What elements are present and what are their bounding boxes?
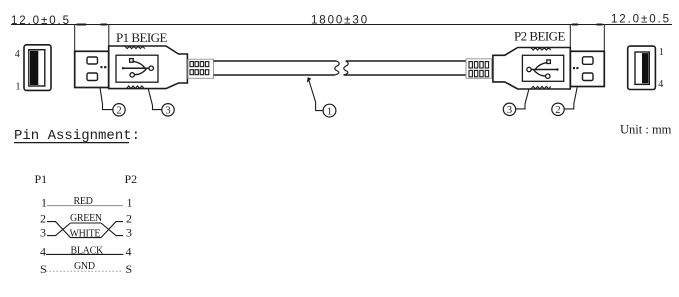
svg-text:P2 BEIGE: P2 BEIGE <box>514 29 565 44</box>
P1 shell hole lower <box>87 73 98 81</box>
wire BLACK line <box>46 253 124 255</box>
callout leader 2 left <box>100 88 113 110</box>
label Unit: mm <box>620 123 672 137</box>
P1 USB trident <box>122 59 154 78</box>
svg-text:1: 1 <box>659 47 664 58</box>
P1 front pin label 1 <box>16 82 21 93</box>
callout leader 1 with arrow <box>307 78 323 111</box>
pin row S right number <box>126 262 133 276</box>
wire BLACK label <box>71 245 104 256</box>
svg-text:2: 2 <box>116 106 121 117</box>
extension line left shell front <box>74 25 76 52</box>
extension line right shell rear <box>569 25 571 48</box>
callout leader 3 left <box>148 89 162 110</box>
P1 logo box <box>116 55 158 82</box>
connector P2 metal shell <box>570 51 604 86</box>
wire GND label <box>74 261 95 272</box>
dimension text 12.0±0.5 left <box>11 15 71 27</box>
pin row 3 left number <box>40 226 46 240</box>
svg-text:4: 4 <box>15 49 20 60</box>
P2 overmold top knurl <box>531 48 551 50</box>
svg-text:Pin Assignment:: Pin Assignment: <box>14 128 140 144</box>
svg-text:P2: P2 <box>125 172 138 186</box>
svg-text:3: 3 <box>507 105 512 116</box>
svg-text:1: 1 <box>127 196 133 210</box>
svg-text:P1: P1 <box>35 172 48 186</box>
dimension text 12.0±0.5 right <box>611 13 671 25</box>
twisted pair hexagon top <box>71 222 102 224</box>
svg-text:RED: RED <box>74 196 93 207</box>
svg-text:3: 3 <box>40 226 46 240</box>
P1 shell hole upper <box>87 57 98 64</box>
P1 shell crimp dots <box>101 66 107 68</box>
svg-text:2: 2 <box>126 212 132 226</box>
P2 shell hole lower <box>583 73 594 81</box>
P2 strain relief ribs <box>469 62 489 77</box>
cable segment left <box>214 61 337 75</box>
pin row 1 right number <box>127 196 133 210</box>
svg-text:1800±30: 1800±30 <box>311 15 369 27</box>
P2 USB trident (mirrored) <box>527 60 559 79</box>
dimension arrows 12.0 right <box>572 24 603 26</box>
P2 shell hole upper <box>583 57 594 65</box>
svg-text:4: 4 <box>658 79 663 90</box>
P1 front view tongue <box>29 50 45 86</box>
P2 strain relief block <box>466 59 492 79</box>
svg-text:4: 4 <box>40 245 46 259</box>
pin row S left number <box>40 262 47 276</box>
svg-text:GND: GND <box>74 261 95 272</box>
pin row 4 left number <box>40 245 46 259</box>
svg-text:GREEN: GREEN <box>70 213 102 224</box>
wire GND line dotted <box>46 270 123 272</box>
cable break right S-curve <box>344 61 349 75</box>
connector P1 overmold body <box>109 46 188 89</box>
svg-text:2: 2 <box>555 105 560 116</box>
wire RED label <box>74 196 93 207</box>
svg-text:12.0±0.5: 12.0±0.5 <box>611 13 671 25</box>
callout circle 3 right <box>503 103 515 116</box>
pin row 2 left number <box>40 212 46 226</box>
connector P2 overmold body <box>493 48 570 90</box>
svg-text:P1 BEIGE: P1 BEIGE <box>116 30 167 45</box>
P2 logo box <box>522 55 563 81</box>
svg-text:BLACK: BLACK <box>71 245 104 256</box>
svg-text:S: S <box>40 262 47 276</box>
P1 overmold bottom knurl <box>127 86 145 88</box>
P2 front pin label 1 <box>659 47 664 58</box>
svg-text:3: 3 <box>126 226 132 240</box>
callout circle 1 <box>323 104 336 117</box>
heading underline <box>14 142 129 144</box>
callout circle 3 left <box>162 104 174 117</box>
twisted pair hexagon bottom <box>71 237 102 239</box>
callout circle 2 left <box>113 104 125 117</box>
pin row 1 left number <box>41 196 47 210</box>
pin row 3 right number <box>126 226 132 240</box>
P1 strain relief block <box>188 59 214 78</box>
wire GREEN label <box>70 213 102 224</box>
svg-text:1: 1 <box>16 82 21 93</box>
callout leader 2 right <box>564 87 577 109</box>
P2 front pin label 4 <box>658 79 663 90</box>
P1 front pin label 4 <box>15 49 20 60</box>
callout leader 3 right <box>516 90 529 109</box>
wire WHITE label <box>70 229 101 240</box>
cable break left S-curve <box>335 61 340 75</box>
P1 strain relief ribs <box>190 62 209 75</box>
dimension arrows 12.0 left <box>77 24 108 26</box>
pin row 2 right number <box>126 212 132 226</box>
P1 front view outer shell <box>24 45 51 91</box>
label P1 BEIGE <box>116 30 167 45</box>
svg-text:Unit : mm: Unit : mm <box>620 123 672 137</box>
extension line left shell rear <box>108 25 110 46</box>
connector P1 metal shell <box>75 51 109 87</box>
P2 overmold bottom knurl <box>531 86 551 88</box>
cable segment right <box>344 61 467 75</box>
dimension text 1800±30 <box>311 15 369 27</box>
P2 front view tongue <box>635 52 649 84</box>
svg-text:1: 1 <box>327 106 332 117</box>
svg-text:12.0±0.5: 12.0±0.5 <box>11 15 71 27</box>
callout circle 2 right <box>552 103 564 116</box>
wire RED line <box>47 205 123 207</box>
label P2 BEIGE <box>514 29 565 44</box>
P2 front view outer shell <box>628 46 656 89</box>
heading Pin Assignment <box>14 128 140 144</box>
extension line right shell front <box>603 25 605 52</box>
twisted pair crossover right X <box>101 222 123 238</box>
twisted pair crossover left X <box>47 222 71 238</box>
table header P1 <box>35 172 48 186</box>
svg-text:1: 1 <box>41 196 47 210</box>
svg-text:S: S <box>126 262 133 276</box>
svg-text:3: 3 <box>165 106 170 117</box>
P1 overmold top knurl <box>125 46 145 48</box>
P2 shell crimp dots <box>573 67 579 69</box>
svg-text:4: 4 <box>126 245 132 259</box>
dimension line top <box>11 24 672 26</box>
table header P2 <box>125 172 138 186</box>
pin row 4 right number <box>126 245 132 259</box>
svg-text:2: 2 <box>40 212 46 226</box>
